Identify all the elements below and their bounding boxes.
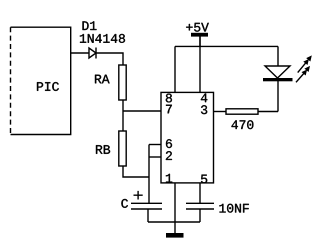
LED arrow 2 head: [302, 66, 311, 76]
label 1N4148: [80, 34, 125, 43]
LED arrow 1 head: [303, 55, 312, 65]
PIC box: [11, 27, 71, 134]
pin 8: [166, 94, 172, 103]
wire RB down to node: [123, 166, 149, 177]
pin 5: [201, 175, 207, 184]
LED arrow 2 shaft: [296, 73, 304, 82]
pin 3: [201, 105, 207, 114]
label RA: [95, 75, 110, 84]
wire 470 to LED: [258, 111, 278, 113]
wire pin 4 up: [199, 36, 201, 92]
capacitor C: [131, 203, 162, 209]
pin 6: [166, 139, 172, 148]
+5V bar: [191, 33, 208, 37]
wire 10NF down to rail: [199, 209, 201, 222]
LED arrow 1 shaft: [298, 62, 306, 72]
+5V stem: [199, 36, 200, 46]
label D1: [83, 21, 97, 30]
diode D1: [89, 48, 96, 59]
wire to pin 2: [149, 156, 161, 158]
wire pin 8 up: [174, 46, 176, 92]
wire cap C down to rail: [147, 209, 149, 222]
wire node to pin 7: [123, 110, 161, 112]
wire to pin 6: [149, 144, 161, 146]
pin 2: [166, 151, 172, 160]
wire LED anode: [277, 46, 279, 66]
LED cathode bar: [263, 78, 293, 81]
wire diode to RA: [96, 53, 123, 65]
resistor RA: [119, 65, 126, 100]
wire pin 1 down to ground: [174, 183, 176, 233]
resistor 470: [226, 109, 258, 114]
ground: [166, 233, 184, 238]
top rail +5V: [175, 45, 278, 47]
wire PIC to diode: [70, 52, 89, 54]
pin 7: [166, 105, 172, 114]
resistor RB: [119, 131, 126, 166]
wire pin 5 down: [199, 183, 201, 203]
label C: [121, 199, 128, 208]
bottom rail: [148, 221, 200, 223]
pin 4: [201, 94, 207, 103]
pin 1: [166, 174, 172, 183]
capacitor 10NF: [186, 203, 214, 209]
op-amp U1 box: [161, 92, 214, 182]
wire pin 3 to 470: [214, 111, 227, 113]
wire LED cathode down: [277, 81, 279, 112]
label RB: [96, 145, 110, 154]
wire RA to RB: [122, 100, 124, 131]
label 10NF: [219, 204, 248, 213]
label +5V: [186, 23, 209, 32]
label 470: [232, 120, 254, 129]
label PIC: [37, 82, 59, 91]
LED D2: [265, 66, 290, 78]
wire pins 6-2 node vertical: [148, 145, 150, 204]
plus sign of capacitor C: [134, 191, 143, 200]
